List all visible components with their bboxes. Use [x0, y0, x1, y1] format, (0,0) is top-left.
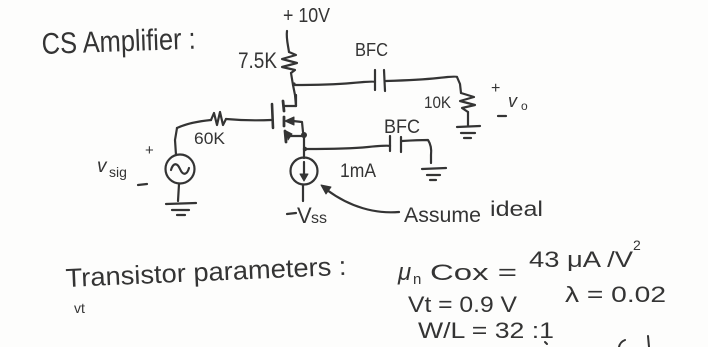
wire vsig to ground: [178, 184, 179, 201]
label un Cox equation: [397, 237, 641, 288]
capacitor BFC bypass: [389, 136, 391, 151]
wire 60K to gate: [226, 119, 271, 120]
svg-text:v: v: [508, 91, 518, 111]
wire current source to -Vss: [302, 185, 304, 201]
wire vsig to gate corner: [175, 128, 177, 155]
label lambda equation: [565, 282, 666, 307]
svg-text:CS Amplifier :: CS Amplifier :: [41, 23, 196, 61]
svg-text:BFC: BFC: [384, 117, 420, 138]
resistor RL 10K: [460, 93, 475, 112]
source VSIG: [166, 155, 195, 184]
label vo: [508, 91, 528, 113]
svg-text:Transistor parameters :: Transistor parameters :: [65, 251, 347, 293]
label Assume ideal: [404, 198, 543, 227]
label vsig: [97, 156, 127, 180]
svg-text:o: o: [521, 99, 528, 113]
current source I1: [291, 158, 318, 185]
transistor M1 channel dashes: [283, 101, 284, 111]
svg-text:43 μA /V: 43 μA /V: [529, 247, 633, 272]
wire source down: [303, 137, 305, 158]
label vsig minus: [138, 184, 147, 185]
svg-text:10K: 10K: [424, 93, 452, 112]
label output plus: [491, 80, 500, 97]
svg-text:sig: sig: [109, 164, 127, 180]
svg-text:2: 2: [633, 237, 641, 253]
stray marks bottom cut-off line: [545, 342, 547, 344]
transistor M1 source lead: [287, 135, 304, 137]
svg-text:1mA: 1mA: [340, 161, 376, 182]
svg-text:μ: μ: [397, 259, 411, 286]
ground under vsig: [166, 203, 196, 204]
label vsig plus: [145, 142, 154, 159]
svg-text:n: n: [413, 271, 421, 288]
svg-text:+: +: [491, 80, 500, 97]
ground under 10K: [457, 126, 480, 127]
svg-text:vt: vt: [74, 300, 85, 316]
svg-text:Assume: Assume: [404, 204, 481, 227]
label 10K: [424, 93, 452, 112]
wire load corner: [457, 77, 461, 93]
transistor M1 drain lead: [285, 95, 296, 106]
wire cap to load: [386, 77, 457, 81]
svg-text:ideal: ideal: [490, 198, 543, 221]
wire drain vertical: [291, 73, 296, 106]
node source junction: [301, 132, 307, 138]
svg-text:λ = 0.02: λ = 0.02: [565, 282, 666, 307]
wire supply lead: [287, 31, 289, 52]
label CS Amplifier: [41, 23, 196, 61]
node source-cap junction: [303, 147, 307, 151]
ground under bypass cap: [422, 168, 446, 169]
svg-text:BFC: BFC: [355, 40, 388, 60]
svg-text:+: +: [145, 142, 154, 159]
capacitor BFC output coupling: [374, 70, 376, 90]
wire drain to coupling cap: [293, 82, 375, 85]
transistor M1 gate bar: [272, 104, 273, 128]
transistor M1 body arrow: [293, 121, 303, 132]
svg-text:+ 10V: + 10V: [283, 5, 331, 27]
label Vt equation: [408, 292, 517, 317]
svg-text:7.5K: 7.5K: [238, 48, 277, 73]
wire 10K to ground: [467, 112, 469, 126]
wire bypass cap to ground: [402, 140, 431, 163]
resistor RG 60K: [211, 112, 226, 125]
label 7.5K: [238, 48, 277, 73]
label BFC top: [355, 40, 388, 60]
node +10V supply label: [283, 5, 331, 27]
svg-text:Cox =: Cox =: [430, 260, 517, 285]
label 1mA: [340, 161, 376, 182]
svg-text:V: V: [297, 203, 312, 228]
label W/L equation: [418, 318, 554, 343]
svg-text:v: v: [97, 156, 108, 177]
wire gate from source corner: [177, 120, 211, 128]
wire source to bypass cap: [306, 146, 390, 149]
svg-text:W/L = 32 :1: W/L = 32 :1: [418, 318, 554, 343]
label output minus: [498, 115, 506, 117]
resistor RD 7.5K: [282, 52, 297, 73]
label Transistor parameters: [65, 251, 347, 293]
label 60K: [194, 129, 226, 148]
smudge faint mark: [74, 300, 85, 316]
node drain junction: [292, 82, 295, 85]
svg-text:ss: ss: [311, 210, 327, 227]
svg-text:Vt = 0.9 V: Vt = 0.9 V: [408, 292, 517, 317]
label -Vss: [287, 213, 296, 214]
label BFC bottom: [384, 117, 420, 138]
arrow assume ideal: [327, 190, 399, 212]
svg-text:60K: 60K: [194, 129, 226, 148]
